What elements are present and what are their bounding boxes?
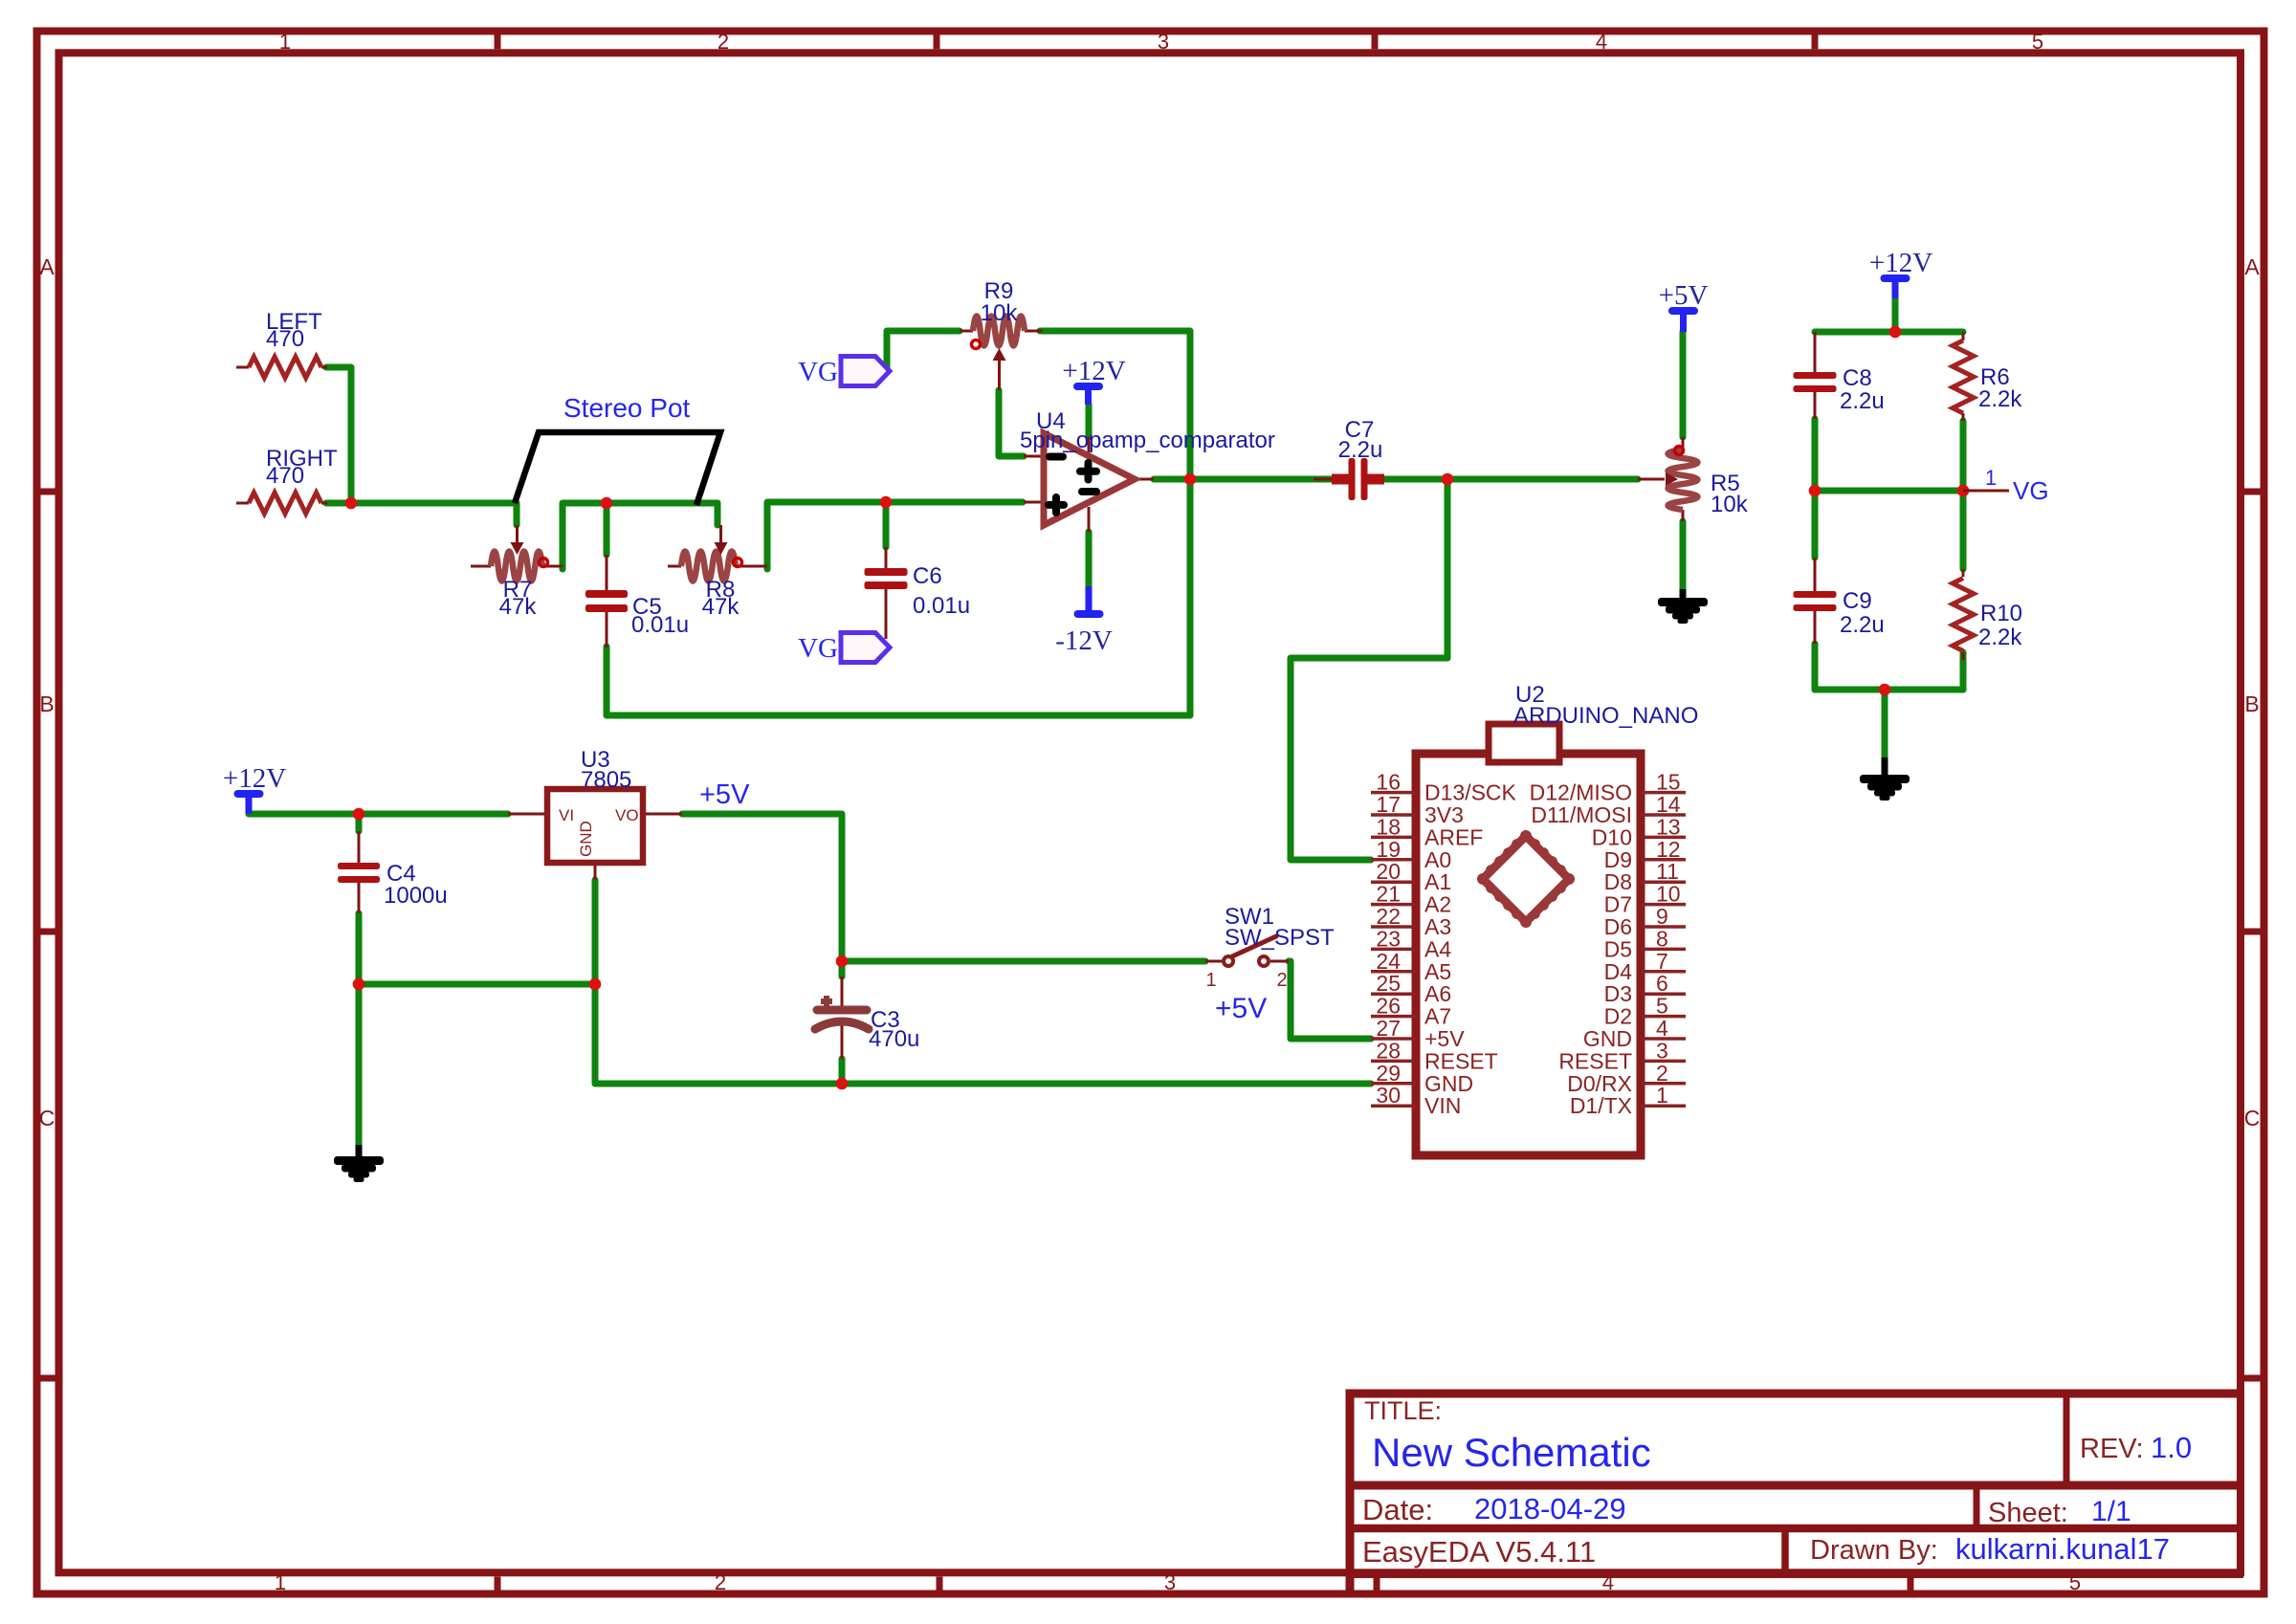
svg-text:19: 19 (1376, 837, 1401, 862)
svg-text:23: 23 (1376, 926, 1401, 951)
title block (1350, 1390, 2243, 1596)
svg-text:A: A (39, 254, 55, 279)
svg-text:A5: A5 (1424, 959, 1451, 984)
wire: ground rail C4 to U3 GND (359, 981, 595, 988)
svg-text:2.2u: 2.2u (1840, 612, 1885, 638)
svg-text:0.01u: 0.01u (631, 612, 689, 638)
svg-text:10: 10 (1656, 882, 1681, 907)
Arduino U2 ARDUINO_NANO body (1416, 682, 1698, 1155)
wire: op-amp V- stub (1086, 532, 1093, 586)
wire: +12V flag to C8/R6 rail (1815, 298, 1963, 332)
svg-text:18: 18 (1376, 814, 1401, 839)
potentiometer R7 47k (471, 525, 563, 620)
op-amp U4 5pin_opamp_comparator (1020, 408, 1275, 532)
U2 pin 18 (AREF) (1371, 814, 1483, 849)
svg-text:Drawn By:: Drawn By: (1810, 1535, 1938, 1566)
svg-text:GND: GND (1424, 1071, 1473, 1096)
wire: op-amp V+ stub (1086, 405, 1093, 437)
svg-text:SW_SPST: SW_SPST (1225, 925, 1335, 951)
svg-text:3V3: 3V3 (1424, 802, 1464, 827)
svg-text:EasyEDA V5.4.11: EasyEDA V5.4.11 (1362, 1535, 1596, 1569)
wire: VG port to R9 left (887, 331, 960, 368)
capacitor C9 2.2u (1794, 558, 1885, 644)
svg-text:7: 7 (1656, 949, 1668, 974)
title block texts (1362, 1396, 2192, 1569)
U2 pin 8 (D5) (1604, 926, 1686, 961)
U2 pin 17 (3V3) (1371, 792, 1464, 827)
svg-text:26: 26 (1376, 994, 1401, 1019)
svg-text:+5V: +5V (699, 779, 750, 810)
wire: bottom rail C9/R10 (1815, 652, 1963, 690)
resistor LEFT 470 (236, 309, 327, 378)
svg-text:RESET: RESET (1424, 1048, 1498, 1073)
svg-text:A1: A1 (1424, 869, 1451, 894)
junction C4 tap (353, 808, 365, 821)
svg-text:5: 5 (1656, 994, 1668, 1019)
potentiometer R9 10k (960, 278, 1043, 390)
junction U3 GND rail (589, 978, 602, 991)
wire: C5 top stub (604, 503, 610, 555)
capacitor C4 1000u (338, 831, 448, 913)
ground (R5) (1658, 589, 1708, 624)
svg-text:0.01u: 0.01u (913, 593, 970, 619)
junction C5 tap (601, 497, 613, 510)
svg-text:Sheet:: Sheet: (1988, 1498, 2068, 1528)
svg-text:D11/MOSI: D11/MOSI (1531, 802, 1632, 827)
VG net label (node 1) (1963, 466, 2049, 505)
-12V power flag (op-amp) (1055, 586, 1113, 656)
svg-text:1: 1 (1656, 1083, 1668, 1108)
svg-text:GND: GND (577, 821, 595, 857)
U2 pin 1 (D1/TX) (1570, 1083, 1686, 1118)
Stereo Pot gang bracket (515, 393, 720, 505)
svg-text:D3: D3 (1604, 981, 1632, 1006)
svg-text:B: B (2244, 691, 2259, 716)
svg-text:16: 16 (1376, 770, 1401, 795)
wire: +12V flag to U3 VI (249, 811, 508, 818)
svg-text:470: 470 (266, 326, 304, 352)
svg-text:17: 17 (1376, 792, 1401, 817)
U2 pin 10 (D7) (1604, 882, 1686, 917)
+5V power flag (R5) (1659, 280, 1709, 332)
svg-text:New Schematic: New Schematic (1372, 1430, 1651, 1475)
svg-text:5: 5 (2032, 30, 2043, 54)
U2 pin 13 (D10) (1592, 814, 1686, 849)
svg-text:C8: C8 (1843, 365, 1872, 391)
svg-text:28: 28 (1376, 1038, 1401, 1063)
wire: +5V node to SW1 pin 1 (842, 958, 1205, 965)
wire: U3 VO to +5V node (682, 814, 842, 961)
svg-text:GND: GND (1583, 1026, 1632, 1051)
svg-text:A6: A6 (1424, 981, 1451, 1006)
svg-text:30: 30 (1376, 1083, 1401, 1108)
svg-text:470: 470 (266, 463, 304, 489)
U2 pin 27 (+5V) (1371, 1016, 1465, 1051)
capacitor C3 470u (polarized) (815, 977, 919, 1059)
wire: R5 bottom to ground (1680, 521, 1687, 589)
wire: R8 terminal up and across to op-amp non-inverting input (767, 502, 1023, 569)
svg-text:D4: D4 (1604, 959, 1633, 984)
U2 pin 21 (A2) (1371, 882, 1451, 917)
wire: U3 GND down and across to Arduino GND (pin 29) (595, 880, 1371, 1084)
U2 pin 11 (D8) (1604, 859, 1686, 894)
wire: LEFT resistor output down to RIGHT net (326, 367, 351, 503)
U2 pin 28 (RESET) (1371, 1038, 1498, 1073)
resistor RIGHT 470 (236, 446, 338, 514)
svg-text:27: 27 (1376, 1016, 1401, 1041)
svg-text:4: 4 (1656, 1016, 1668, 1041)
svg-text:6: 6 (1656, 971, 1668, 996)
svg-text:+5V: +5V (1424, 1026, 1465, 1051)
svg-text:+12V: +12V (223, 763, 286, 794)
junction C4 ground rail (353, 978, 365, 991)
svg-text:1.0: 1.0 (2151, 1431, 2192, 1464)
svg-text:TITLE:: TITLE: (1364, 1396, 1442, 1425)
svg-text:2: 2 (715, 1570, 726, 1594)
svg-text:A2: A2 (1424, 892, 1451, 917)
svg-text:A: A (2244, 254, 2260, 279)
wire: signal node down to Arduino A0 (pin 19) (1291, 479, 1447, 860)
U2 pin 6 (D3) (1604, 971, 1686, 1006)
svg-text:VI: VI (559, 806, 574, 824)
junction +12V rail right (1889, 326, 1902, 339)
svg-text:VG: VG (798, 357, 838, 387)
svg-text:47k: 47k (702, 594, 740, 620)
wire: C4 bottom to ground rail (356, 913, 363, 984)
svg-text:R10: R10 (1980, 601, 2022, 626)
wire: C9 bottom to bottom rail (1812, 644, 1819, 690)
junction bottom rail ground (1879, 684, 1891, 696)
wire: R9 wiper to op-amp inverting input (999, 390, 1024, 456)
VG net port (R9) (798, 357, 890, 388)
svg-text:D2: D2 (1604, 1004, 1632, 1029)
svg-text:2.2u: 2.2u (1840, 388, 1885, 414)
wire: C3 top stub (839, 961, 846, 977)
wire: C4 ground drop (356, 984, 363, 1145)
svg-text:4: 4 (1596, 30, 1607, 54)
svg-text:Stereo Pot: Stereo Pot (563, 393, 691, 423)
svg-text:C6: C6 (913, 563, 942, 589)
potentiometer R8 47k (668, 525, 767, 620)
svg-text:22: 22 (1376, 904, 1401, 929)
wire: C4 top stub (356, 814, 363, 831)
svg-text:A4: A4 (1424, 936, 1451, 961)
wire: bottom rail to ground (1882, 690, 1888, 757)
svg-text:25: 25 (1376, 971, 1401, 996)
svg-text:1: 1 (275, 1570, 286, 1594)
VG net port (C6) (798, 633, 890, 665)
svg-text:11: 11 (1656, 859, 1679, 884)
U2 pin 4 (GND) (1583, 1016, 1686, 1051)
junction C8/C9 VG rail (1809, 485, 1821, 497)
Arduino U2 chip diamond (1477, 830, 1575, 928)
svg-text:kulkarni.kunal17: kulkarni.kunal17 (1955, 1532, 2170, 1566)
junction C7 output node (1442, 473, 1454, 486)
+12V power flag (right) (1869, 248, 1932, 298)
svg-text:20: 20 (1376, 859, 1401, 884)
junction op-amp output/feedback (1184, 473, 1197, 486)
U2 pin 26 (A7) (1371, 994, 1451, 1029)
wire: R10 top from VG rail (1960, 491, 1967, 569)
U2 pin 16 (D13/SCK) (1371, 770, 1517, 805)
U2 pin 2 (D0/RX) (1567, 1061, 1686, 1096)
svg-text:15: 15 (1656, 770, 1681, 795)
svg-text:RESET: RESET (1558, 1048, 1632, 1073)
svg-text:REV:: REV: (2080, 1434, 2144, 1464)
wire: R9 right / feedback loop down to C5 bottom (607, 331, 1190, 715)
U2 pin 25 (A6) (1371, 971, 1451, 1006)
svg-text:D5: D5 (1604, 936, 1632, 961)
svg-text:D7: D7 (1604, 892, 1632, 917)
svg-text:AREF: AREF (1424, 824, 1483, 849)
+12V power flag (op-amp) (1062, 356, 1125, 405)
junction C3 ground rail (836, 1078, 849, 1090)
U2 pin 22 (A3) (1371, 904, 1451, 939)
svg-text:13: 13 (1656, 814, 1681, 839)
svg-text:VG: VG (798, 633, 838, 664)
svg-text:C9: C9 (1843, 588, 1872, 614)
svg-text:10k: 10k (1711, 492, 1749, 517)
svg-text:D12/MISO: D12/MISO (1530, 780, 1632, 805)
junction R6/R10 VG rail (1957, 485, 1970, 497)
svg-text:29: 29 (1376, 1061, 1401, 1086)
U2 pin 24 (A5) (1371, 949, 1451, 984)
svg-text:2.2k: 2.2k (1978, 386, 2022, 412)
svg-text:-12V: -12V (1055, 625, 1113, 656)
svg-text:C: C (39, 1106, 55, 1130)
U2 pin 12 (D9) (1604, 837, 1686, 872)
svg-text:24: 24 (1376, 949, 1401, 974)
svg-text:D1/TX: D1/TX (1570, 1093, 1632, 1118)
svg-text:+5V: +5V (1659, 280, 1709, 311)
svg-text:5pin_opamp_comparator: 5pin_opamp_comparator (1020, 428, 1275, 453)
svg-text:3: 3 (1656, 1038, 1668, 1063)
U2 pin 7 (D4) (1604, 949, 1686, 984)
svg-text:1: 1 (1205, 970, 1216, 991)
svg-text:+5V: +5V (1215, 993, 1267, 1024)
svg-text:D9: D9 (1604, 847, 1632, 872)
wire: SW1 pin 2 down to Arduino +5V (pin 27) (1289, 961, 1371, 1039)
wire: C6 top stub (883, 502, 890, 547)
svg-text:D0/RX: D0/RX (1567, 1071, 1632, 1096)
svg-text:2: 2 (1656, 1061, 1668, 1086)
junction C6 tap (880, 496, 893, 509)
U2 pin 3 (RESET) (1558, 1038, 1686, 1073)
wire: RIGHT resistor to R7 wiper (326, 500, 517, 507)
svg-text:A3: A3 (1424, 914, 1451, 939)
svg-text:2018-04-29: 2018-04-29 (1474, 1492, 1626, 1525)
svg-text:7805: 7805 (581, 767, 631, 793)
U2 pin 14 (D11/MOSI) (1531, 792, 1686, 827)
U2 pin 5 (D2) (1604, 994, 1686, 1029)
svg-text:A7: A7 (1424, 1004, 1451, 1029)
svg-text:2: 2 (717, 30, 729, 54)
junction +5V/C3 node (836, 955, 849, 968)
U2 pin 23 (A4) (1371, 926, 1451, 961)
wire: C8 bottom to VG rail (1812, 419, 1819, 558)
svg-text:8: 8 (1656, 926, 1668, 951)
svg-text:470u: 470u (869, 1026, 919, 1052)
wire: op-amp output to C7 (1154, 476, 1332, 483)
svg-text:21: 21 (1376, 882, 1401, 907)
svg-text:D13/SCK: D13/SCK (1424, 780, 1517, 805)
svg-text:1: 1 (1985, 466, 1997, 490)
svg-text:D6: D6 (1604, 914, 1632, 939)
resistor R6 2.2k (1953, 332, 2022, 421)
svg-text:47k: 47k (499, 594, 538, 620)
wire: VG rail (1815, 488, 1963, 494)
svg-text:C: C (2244, 1106, 2261, 1130)
+12V power flag (U3) (223, 763, 286, 814)
svg-text:ARDUINO_NANO: ARDUINO_NANO (1513, 703, 1698, 729)
U2 pin 30 (VIN) (1371, 1083, 1461, 1118)
svg-text:1: 1 (279, 30, 291, 54)
svg-text:+12V: +12V (1062, 356, 1125, 386)
+5V net label (SW1) (1215, 993, 1267, 1024)
svg-text:1000u: 1000u (384, 883, 448, 909)
svg-text:1/1: 1/1 (2091, 1496, 2131, 1527)
wire: C3 bottom stub (839, 1059, 846, 1084)
U2 pin 15 (D12/MISO) (1530, 770, 1686, 805)
svg-text:10k: 10k (981, 300, 1019, 326)
svg-text:3: 3 (1158, 30, 1169, 54)
svg-text:VIN: VIN (1424, 1093, 1461, 1118)
capacitor C7 2.2u (1314, 417, 1384, 500)
junction RIGHT/LEFT node (345, 497, 358, 510)
svg-text:2: 2 (1276, 970, 1287, 991)
capacitor C5 0.01u (585, 555, 689, 647)
U2 pin 29 (GND) (1371, 1061, 1473, 1096)
wire: R7 wiper stub (514, 503, 520, 525)
capacitor C6 0.01u (865, 547, 971, 639)
svg-text:12: 12 (1656, 837, 1681, 862)
regulator U3 7805 (508, 747, 682, 880)
U2 pin 9 (D6) (1604, 904, 1686, 939)
+5V net label (U3 VO) (699, 779, 750, 810)
svg-text:B: B (39, 691, 54, 716)
svg-text:VG: VG (2013, 476, 2049, 505)
svg-text:2.2k: 2.2k (1978, 625, 2022, 650)
svg-text:Date:: Date: (1362, 1493, 1433, 1526)
U2 pin 20 (A1) (1371, 859, 1451, 894)
resistor R10 2.2k (1953, 569, 2022, 660)
svg-text:14: 14 (1656, 792, 1681, 817)
potentiometer R5 10k (1638, 437, 1749, 521)
svg-text:+12V: +12V (1869, 248, 1932, 278)
wire: R6 bottom to VG rail (1960, 421, 1967, 491)
svg-text:D8: D8 (1604, 869, 1632, 894)
switch SW1 SW_SPST (1205, 904, 1335, 991)
svg-text:2.2u: 2.2u (1338, 437, 1383, 463)
ground (C4) (334, 1145, 384, 1182)
capacitor C8 2.2u (1794, 332, 1885, 419)
svg-text:3: 3 (1164, 1570, 1176, 1594)
wire: +5V flag to R5 top (1680, 332, 1687, 437)
U2 pin 19 (A0) (1371, 837, 1451, 872)
svg-text:A0: A0 (1424, 847, 1451, 872)
wire: R7 terminal up and across to R8 wiper (C5 tap) (563, 503, 717, 569)
wire: C7 to R5 wiper (1385, 476, 1638, 483)
svg-text:9: 9 (1656, 904, 1668, 929)
svg-text:VO: VO (615, 806, 639, 824)
ground (C9/R10 rail) (1860, 757, 1910, 801)
svg-text:D10: D10 (1592, 824, 1632, 849)
